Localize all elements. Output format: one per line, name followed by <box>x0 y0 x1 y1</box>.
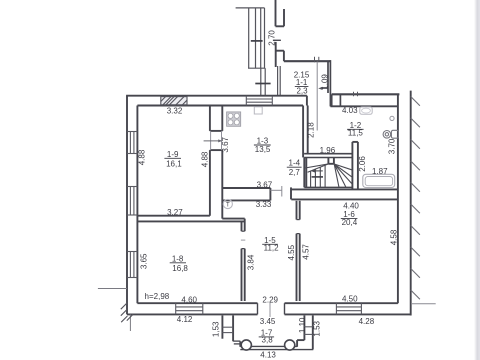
svg-text:2.29: 2.29 <box>262 296 278 305</box>
svg-text:1.87: 1.87 <box>372 167 388 176</box>
svg-text:1-4: 1-4 <box>289 159 301 168</box>
svg-text:3.45: 3.45 <box>260 317 276 326</box>
svg-text:3.70: 3.70 <box>388 138 397 154</box>
svg-text:2.18: 2.18 <box>307 122 316 138</box>
svg-text:3.27: 3.27 <box>167 208 183 217</box>
svg-text:4.58: 4.58 <box>390 229 399 245</box>
svg-text:16,1: 16,1 <box>166 160 182 169</box>
svg-text:3.67: 3.67 <box>221 136 230 152</box>
svg-text:4.88: 4.88 <box>201 151 210 167</box>
svg-text:2.70: 2.70 <box>267 30 276 46</box>
svg-text:20,4: 20,4 <box>342 218 358 227</box>
svg-text:4.60: 4.60 <box>181 295 197 304</box>
svg-text:1.09: 1.09 <box>320 74 329 90</box>
svg-text:3.84: 3.84 <box>247 254 256 270</box>
svg-text:4.03: 4.03 <box>342 106 358 115</box>
svg-text:1-8: 1-8 <box>172 254 184 263</box>
svg-text:1-9: 1-9 <box>167 150 179 159</box>
svg-text:2,7: 2,7 <box>289 168 301 177</box>
svg-text:3,8: 3,8 <box>262 336 274 345</box>
svg-text:4.13: 4.13 <box>260 350 276 359</box>
svg-text:4.88: 4.88 <box>138 149 147 165</box>
svg-text:4.28: 4.28 <box>359 317 375 326</box>
svg-text:2.06: 2.06 <box>358 156 367 172</box>
svg-text:16,8: 16,8 <box>172 264 188 273</box>
svg-text:h=2,98: h=2,98 <box>145 292 170 301</box>
svg-text:1.10: 1.10 <box>298 317 307 333</box>
svg-text:3.32: 3.32 <box>167 107 183 116</box>
svg-text:3.65: 3.65 <box>140 253 149 269</box>
svg-text:T: T <box>226 203 230 209</box>
svg-text:4.57: 4.57 <box>301 244 310 260</box>
svg-text:1.53: 1.53 <box>313 320 322 336</box>
svg-text:11,5: 11,5 <box>348 128 364 137</box>
svg-text:13,5: 13,5 <box>255 145 271 154</box>
svg-text:2,3: 2,3 <box>296 86 308 95</box>
svg-text:4.55: 4.55 <box>287 244 296 260</box>
svg-text:4.12: 4.12 <box>177 315 193 324</box>
svg-text:11,2: 11,2 <box>264 244 280 253</box>
svg-text:1,53: 1,53 <box>211 321 220 337</box>
svg-text:3.67: 3.67 <box>257 180 273 189</box>
svg-text:1.96: 1.96 <box>320 146 336 155</box>
svg-text:3.33: 3.33 <box>256 200 272 209</box>
svg-text:4.50: 4.50 <box>342 294 358 303</box>
